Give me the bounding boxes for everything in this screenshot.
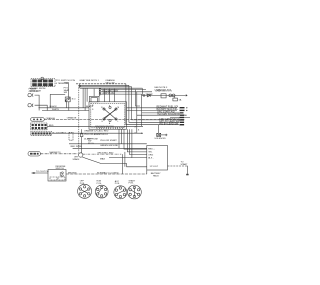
svg-text:BATTERY: BATTERY [151, 172, 161, 175]
svg-text:GREEN GROUND: GREEN GROUND [100, 145, 119, 147]
wire white bus [42, 110, 89, 112]
wire into box 3 [103, 89, 105, 102]
wire drop 4 [137, 92, 179, 115]
switch SW4 [127, 185, 141, 199]
pin stubs along box bottom [97, 127, 122, 129]
label bundle A [79, 79, 172, 92]
svg-text:ORANGE: ORANGE [67, 117, 77, 120]
wire diagonal from junction [82, 157, 146, 167]
svg-text:YELLOW START: YELLOW START [100, 139, 117, 142]
connector P3 (ring terminal) [28, 104, 33, 107]
wire box-bottom drop a [118, 129, 120, 148]
svg-text:GROUND: GROUND [29, 91, 39, 93]
svg-text:POS.: POS. [97, 183, 102, 185]
wire riser to interlock [122, 154, 124, 174]
wire into box 1 [93, 89, 95, 97]
svg-text:B+ 12V BATT: B+ 12V BATT [53, 132, 67, 135]
wire dash-dot magneto [83, 153, 121, 155]
wire harness dashed riser [78, 85, 80, 153]
wire P2 to bus [35, 95, 40, 110]
wire long 143.8 [69, 143, 147, 145]
fuse F2 [173, 98, 178, 101]
svg-text:RED WIRE: RED WIRE [71, 146, 82, 148]
connector P2 (ring terminal) [28, 93, 33, 96]
svg-text:YEL/GRN SOLENOID: YEL/GRN SOLENOID [157, 114, 180, 116]
wire box-bottom drop b [121, 129, 123, 144]
switch S3 (safety interlock box) [48, 170, 66, 182]
wire row T2 [157, 108, 179, 111]
wire row T7 [159, 120, 180, 123]
wire seat switch down-left [66, 102, 68, 108]
svg-text:BLACK: BLACK [50, 105, 58, 108]
wire black bus [39, 107, 90, 109]
pin M of key switch [99, 91, 101, 93]
label ground text [29, 88, 39, 93]
wire bundle row 1 [76, 83, 126, 85]
connector P6 (inline fuse bar) [31, 132, 52, 136]
svg-text:SOLENOID: SOLENOID [154, 138, 166, 140]
svg-text:12 VOLT: 12 VOLT [150, 166, 159, 168]
wire drop 3 [132, 87, 179, 120]
connector P5 (10-cavity block) [31, 123, 47, 130]
wire P5 [47, 125, 143, 127]
label title right [154, 87, 171, 91]
connector P4 (oval 3-pin) [31, 118, 45, 122]
wire long 148.3 [73, 147, 147, 149]
label J1 text [30, 80, 76, 93]
wire into box 2 [98, 89, 100, 97]
svg-text:POS.: POS. [115, 183, 120, 185]
svg-text:CHARGING SYS: CHARGING SYS [154, 89, 171, 92]
key switch U1 inner dashed [91, 103, 125, 127]
wire row T1 [157, 106, 180, 108]
svg-text:POS.: POS. [129, 183, 134, 185]
switch contact X cluster [103, 106, 117, 121]
svg-text:PACK: PACK [153, 175, 159, 178]
connector J1 (PTO switch plug, top-left block) [31, 77, 55, 87]
pin L of key switch [99, 89, 101, 91]
key positions: switch SW1 [78, 184, 92, 198]
wire box-bottom drop d [127, 129, 147, 152]
switch SW3 [114, 186, 127, 199]
wire P6 [52, 132, 143, 134]
pin G of key switch [99, 93, 101, 95]
label white [52, 109, 60, 111]
wire seat switch down-right [68, 102, 70, 111]
wire into box 5 [114, 89, 116, 102]
svg-text:BLK -: BLK - [148, 157, 154, 159]
wire box-bottom drop e [130, 129, 147, 154]
wire row T3 [157, 111, 175, 114]
wire row T6 [159, 118, 180, 121]
switch SW2 [95, 185, 108, 198]
svg-text:WH: WH [74, 157, 78, 159]
pin letters [101, 106, 119, 125]
connector P7 (oval 2-pin) [28, 151, 40, 156]
wire spur 157.6 [109, 157, 132, 159]
wire stub [50, 93, 65, 95]
wire left risers [82, 88, 84, 108]
wire P3 to bus [35, 105, 48, 110]
switch S2 (seat switch) [65, 97, 70, 102]
wire fuse riser [81, 129, 83, 134]
svg-text:MAGNETO: MAGNETO [50, 151, 61, 154]
key switch U1 outline [89, 102, 127, 129]
connector X1 (box with X) [157, 125, 168, 137]
svg-text:START: START [181, 163, 189, 166]
svg-text:TO CLUTCH: TO CLUTCH [36, 171, 49, 173]
wire box-bottom drop f [132, 129, 147, 157]
wire clutch arrow [32, 172, 49, 174]
svg-text:20 AMP: 20 AMP [146, 93, 154, 96]
bundle ticks [78, 84, 80, 88]
svg-text:GRAY SEE NOTE 1: GRAY SEE NOTE 1 [79, 79, 99, 82]
wire drop 6 [136, 90, 141, 107]
svg-text:ORANGE: ORANGE [46, 117, 56, 120]
fuse F1 [80, 134, 83, 137]
diode D1 row [141, 94, 187, 98]
wire into box 4 [109, 89, 111, 102]
label below box rows [84, 129, 119, 147]
wire drop 5 [141, 88, 143, 95]
svg-text:PTO SWITCH CON: PTO SWITCH CON [56, 80, 76, 82]
svg-text:RED/WHT FUEL SOL: RED/WHT FUEL SOL [157, 106, 180, 108]
svg-text:GROUND LEAD: GROUND LEAD [97, 152, 113, 155]
svg-text:POS.: POS. [80, 183, 85, 185]
svg-text:NORMALLY CLOSED: NORMALLY CLOSED [97, 172, 119, 175]
module M1 on top-left [90, 96, 100, 102]
svg-text:SWITCH: SWITCH [56, 168, 65, 170]
wire row T4 [157, 114, 180, 116]
node junction ring [79, 153, 83, 157]
svg-text:WHITE: WHITE [52, 109, 60, 111]
svg-text:ORANGE 12V ACC RED: ORANGE 12V ACC RED [84, 129, 109, 132]
wire interlock dashed [66, 173, 147, 175]
svg-text:N.O.: N.O. [72, 99, 77, 101]
wire P4 orange [44, 119, 185, 121]
wire P7 dash-dot [40, 153, 78, 155]
wire bundle row 3 [79, 86, 132, 88]
svg-text:RED +: RED + [148, 148, 155, 150]
svg-text:MAG: MAG [100, 158, 105, 161]
wire bundle row 4 [80, 87, 142, 89]
wire battery to starter [168, 165, 187, 167]
battery B2 box [147, 146, 168, 171]
terminal lug [186, 174, 188, 176]
wire drop 7 [142, 94, 179, 113]
svg-text:VIO B+ LEAD SW: VIO B+ LEAD SW [159, 123, 179, 126]
wire box-bottom drop c [124, 129, 147, 149]
wire row T8 [159, 123, 179, 126]
wire bundle row 2 [79, 84, 129, 86]
wire J1 to seat switch [64, 83, 68, 97]
svg-text:YELLOW AMMETER S1: YELLOW AMMETER S1 [84, 133, 109, 136]
svg-text:YELLOW: YELLOW [105, 82, 115, 84]
svg-text:ORG: ORG [148, 154, 153, 156]
wire drop 2 [129, 85, 179, 122]
node splice marks [135, 125, 144, 135]
wire drop 1 [126, 84, 179, 125]
svg-text:L: L [118, 121, 119, 123]
svg-text:BROWN: BROWN [68, 172, 77, 174]
connector boundary dashed [69, 132, 73, 140]
wire row T5 [170, 117, 190, 119]
svg-text:IGNITION SWITCH: IGNITION SWITCH [95, 126, 114, 128]
svg-text:15 AMP FUSE: 15 AMP FUSE [84, 137, 99, 140]
label PTO text [64, 88, 70, 94]
label black [50, 105, 94, 108]
svg-text:RED: RED [49, 125, 54, 127]
